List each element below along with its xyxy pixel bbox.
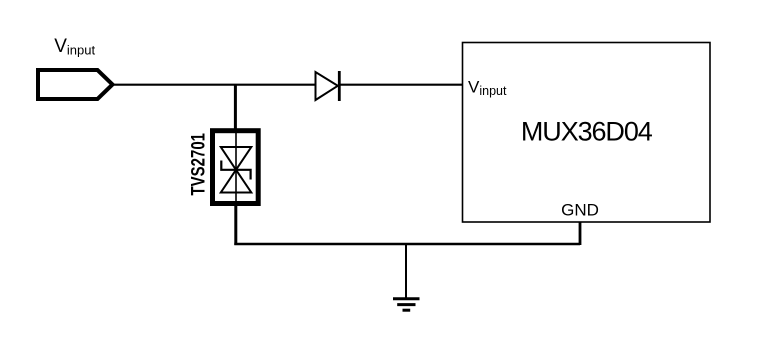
wire input to diode — [111, 84, 316, 86]
node Vinput label — [54, 36, 95, 58]
svg-text:GND: GND — [561, 201, 599, 220]
wire diode to MUX — [341, 84, 463, 86]
wire MUX GND pin down — [579, 222, 582, 246]
wire ground stem — [405, 244, 407, 299]
ground — [393, 299, 420, 310]
diode D1 — [316, 71, 340, 101]
wire bottom horizontal — [234, 243, 580, 245]
pin label GND — [561, 201, 599, 220]
TVS2701 body — [213, 131, 259, 204]
svg-text:TVS2701: TVS2701 — [188, 133, 209, 196]
svg-text:MUX36D04: MUX36D04 — [521, 117, 653, 147]
wire junction to TVS top — [234, 85, 237, 130]
pin label Vinput — [468, 77, 507, 98]
input connector Vinput — [38, 70, 113, 99]
wire TVS bottom down — [234, 204, 237, 245]
TVS2701 label — [188, 133, 209, 196]
op-amp U1 MUX36D04 box — [463, 43, 711, 223]
MUX36D04 label — [521, 117, 653, 147]
